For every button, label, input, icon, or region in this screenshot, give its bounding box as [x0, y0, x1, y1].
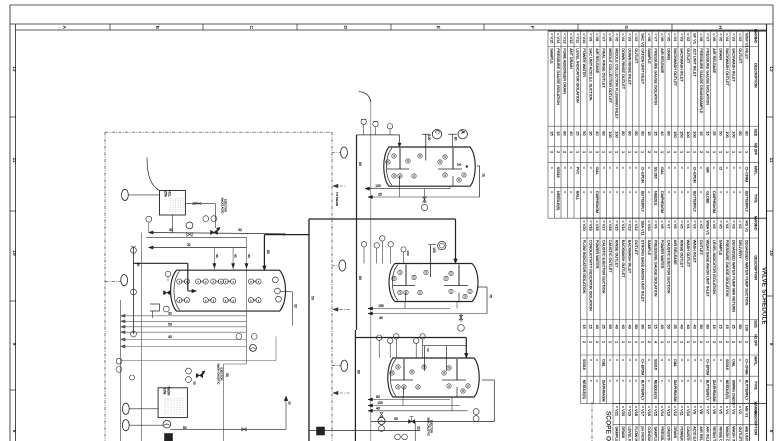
tank T1 inlet bend curve [359, 92, 371, 102]
svg-text:C: C [434, 130, 440, 134]
svg-text:25: 25 [575, 131, 580, 135]
scope boundary dash-dot top [105, 131, 332, 133]
svg-text:=: = [614, 359, 618, 361]
svg-text:OUTLET: OUTLET [634, 240, 638, 256]
svg-text:=: = [601, 191, 605, 193]
svg-text:=: = [699, 167, 703, 169]
svg-text:=: = [686, 380, 690, 382]
svg-text:CI&L: CI&L [673, 359, 677, 367]
svg-text:1: 1 [673, 341, 678, 343]
svg-text:8: 8 [769, 430, 774, 433]
svg-text:= V19: = V19 [627, 406, 632, 416]
acid tank outlet stub [172, 215, 174, 233]
waste sump filled square [317, 427, 325, 435]
tank T3 internals [403, 359, 405, 380]
caustic day tank 10% NaOH [158, 388, 187, 418]
svg-text:MIDDLE COLLECTOR FLUSHING INLE: MIDDLE COLLECTOR FLUSHING INLET [614, 48, 618, 119]
svg-text:2: 2 [738, 341, 743, 343]
tank T2 top valves [363, 247, 365, 264]
svg-text:SCOPE OF: SCOPE OF [605, 411, 612, 441]
svg-text:DEGASSED WATER PUMP SUCTION: DEGASSED WATER PUMP SUCTION [744, 240, 748, 306]
svg-text:=: = [686, 167, 690, 169]
svg-text:15: 15 [647, 131, 652, 135]
svg-text:150: 150 [378, 304, 384, 308]
dash-dot link to WBA tag [332, 265, 339, 267]
svg-text:= V2: = V2 [634, 33, 639, 41]
svg-text:MS V1: MS V1 [744, 220, 749, 232]
svg-text:100: 100 [608, 131, 613, 138]
svg-text:40: 40 [379, 316, 383, 320]
grid ticks right band [767, 116, 774, 118]
svg-text:= V16: = V16 [647, 406, 652, 416]
svg-text:32: 32 [294, 304, 298, 308]
svg-text:=: = [614, 380, 618, 382]
svg-text:25: 25 [712, 131, 717, 135]
svg-text:=: = [666, 191, 670, 193]
svg-text:CI&L: CI&L [731, 359, 735, 367]
svg-text:SAMPLE: SAMPLE [647, 48, 651, 64]
svg-text:CAUSTIC EJECTOR SUCTION: CAUSTIC EJECTOR SUCTION [666, 240, 670, 294]
svg-text:1: 1 [712, 151, 717, 153]
svg-text:1: 1 [673, 151, 678, 153]
tag oval WSF unit [341, 147, 348, 158]
caustic tank hatch [164, 398, 166, 416]
svg-text:NO OFF: NO OFF [754, 334, 758, 346]
line to sample station [121, 360, 276, 362]
svg-text:= V3: = V3 [731, 406, 736, 414]
svg-text:11: 11 [12, 158, 17, 163]
svg-text:25: 25 [601, 325, 606, 329]
bottom pipe y430 [309, 430, 420, 432]
power water elbow thick [264, 234, 308, 236]
tank T4 lower valve row [177, 298, 182, 303]
tank T2 right outlet loop [477, 286, 487, 288]
svg-text:= V4: = V4 [686, 220, 691, 229]
svg-text:1: 1 [608, 151, 613, 153]
svg-text:100: 100 [692, 131, 697, 138]
svg-text:25: 25 [193, 381, 197, 385]
svg-text:MIDDLE COLLECTOR OUTLET: MIDDLE COLLECTOR OUTLET [608, 48, 612, 103]
svg-text:SS316: SS316 [725, 359, 729, 370]
svg-text:BUTTERFLY: BUTTERFLY [640, 380, 644, 401]
svg-text:AIR INLET: AIR INLET [705, 426, 709, 441]
svg-text:15: 15 [725, 325, 730, 329]
svg-text:BUTTERFLY: BUTTERFLY [744, 380, 748, 401]
svg-text:15: 15 [705, 131, 710, 135]
svg-text:1: 1 [614, 151, 619, 153]
svg-text:= V2: = V2 [699, 220, 704, 228]
svg-text:1: 1 [692, 341, 697, 343]
svg-text:CONDUCTIVITY INDICATOR ISOLATI: CONDUCTIVITY INDICATOR ISOLATION [647, 426, 651, 441]
svg-text:SAC UNIT ACID EJ. SUCTION: SAC UNIT ACID EJ. SUCTION [588, 48, 592, 101]
svg-text:25: 25 [378, 193, 382, 197]
acid tank hatch [170, 198, 172, 214]
svg-text:100: 100 [432, 247, 436, 253]
svg-text:15: 15 [549, 131, 554, 135]
svg-text:BACKWASH OUTLET: BACKWASH OUTLET [621, 240, 625, 278]
svg-text:80: 80 [215, 254, 219, 258]
svg-text:1: 1 [588, 341, 593, 343]
svg-text:=: = [647, 167, 651, 169]
tank T3 right outlet valves [473, 409, 479, 415]
svg-text:2: 2 [556, 151, 561, 153]
svg-text:CI&L: CI&L [595, 167, 599, 175]
svg-text:= V18: = V18 [634, 406, 639, 416]
svg-text:= V3: = V3 [731, 33, 736, 41]
tank T1 bottom collector pipe 25 [368, 196, 480, 198]
svg-text:OUTLET: OUTLET [738, 426, 742, 441]
svg-text:FUME ABSORBER DRAIN: FUME ABSORBER DRAIN [562, 48, 566, 94]
svg-text:=: = [738, 359, 742, 361]
scope boundary arrow 2 [333, 392, 350, 394]
svg-text:LEVEL INDICATOR ISOLATION: LEVEL INDICATOR ISOLATION [575, 48, 579, 103]
scope boundary dash-dot left [104, 132, 106, 441]
svg-text:25: 25 [673, 325, 678, 329]
svg-text:RINSE OUTLET: RINSE OUTLET [614, 240, 618, 268]
svg-text:PRESSURE GAUGE ISOLATION: PRESSURE GAUGE ISOLATION [556, 48, 560, 105]
svg-text:= V16: = V16 [608, 220, 613, 230]
svg-text:BACKWASH OUTLET: BACKWASH OUTLET [725, 48, 729, 86]
svg-text:2: 2 [647, 341, 652, 343]
table group 1 row lines [749, 31, 751, 218]
caustic riser to ejector [285, 396, 287, 429]
svg-text:HCL: HCL [168, 190, 172, 197]
svg-text:1: 1 [634, 341, 639, 343]
left pipe x141.5 [141, 233, 143, 441]
svg-text:2: 2 [718, 341, 723, 343]
svg-text:BF V1: BF V1 [692, 33, 697, 44]
svg-text:OUTLET: OUTLET [699, 240, 703, 256]
svg-text:80: 80 [454, 137, 458, 141]
svg-text:=: = [601, 167, 605, 169]
svg-text:FLOW INDICATOR ISOLATION: FLOW INDICATOR ISOLATION [582, 240, 586, 294]
border frame outer right line [772, 5, 774, 441]
svg-text:BACKWASH INLET: BACKWASH INLET [731, 48, 735, 82]
svg-text:= V7: = V7 [705, 33, 710, 41]
tag oval TT [122, 403, 129, 414]
svg-text:FINAL RINSE OUTLET: FINAL RINSE OUTLET [601, 48, 605, 88]
bottom sample valves [395, 434, 401, 440]
svg-text:NO OFF: NO OFF [754, 143, 758, 155]
svg-text:= V13: = V13 [666, 406, 671, 416]
svg-text:=: = [660, 380, 664, 382]
svg-text:50: 50 [225, 373, 229, 377]
svg-text:=: = [582, 167, 586, 169]
svg-text:NO: NO [754, 38, 758, 44]
svg-text:=: = [666, 380, 670, 382]
tag oval acid tank [122, 189, 129, 200]
sample station valves [236, 334, 242, 340]
svg-text:= V2: = V2 [738, 33, 743, 41]
svg-text:CI&L: CI&L [660, 167, 664, 175]
main pipe x309 [308, 219, 310, 441]
svg-text:15: 15 [647, 325, 652, 329]
svg-text:=: = [718, 380, 722, 382]
svg-text:=: = [679, 380, 683, 382]
svg-text:2: 2 [653, 151, 658, 153]
svg-text:100: 100 [375, 184, 381, 188]
svg-text:=: = [731, 167, 735, 169]
svg-text:= V6: = V6 [712, 33, 717, 41]
svg-text:=: = [718, 359, 722, 361]
tank T2 bottom collector pipe 40 [368, 313, 487, 315]
tank T1 drain valve bubble [421, 204, 427, 210]
line down from rinse line [414, 422, 416, 441]
svg-text:MB UNIT INLET: MB UNIT INLET [744, 426, 748, 441]
svg-text:= V5: = V5 [718, 220, 723, 228]
svg-text:1: 1 [601, 341, 606, 343]
svg-text:12: 12 [769, 66, 774, 72]
svg-text:= V12: = V12 [634, 220, 639, 230]
svg-text:= V8: = V8 [699, 33, 704, 41]
acid dosing valve [187, 232, 192, 236]
svg-text:= V8: = V8 [699, 406, 704, 414]
svg-text:11: 11 [769, 158, 774, 163]
svg-text:= V8: = V8 [660, 220, 665, 228]
dash-dot stub to left tag [105, 281, 121, 283]
svg-text:POWER WATER: POWER WATER [679, 426, 683, 441]
svg-text:= V7: = V7 [705, 406, 710, 414]
svg-text:80: 80 [357, 370, 361, 374]
tank T2 main vertical [356, 231, 358, 330]
svg-text:= V2: = V2 [738, 220, 743, 228]
svg-text:2: 2 [731, 341, 736, 343]
dash-dot link to SBA tag [332, 365, 341, 367]
svg-text:B: B [155, 26, 160, 29]
svg-text:= V3: = V3 [692, 220, 697, 228]
svg-text:SBA V11: SBA V11 [640, 220, 645, 235]
svg-text:32: 32 [187, 243, 191, 247]
svg-text:=: = [738, 380, 742, 382]
svg-text:=: = [608, 359, 612, 361]
svg-text:ANT DRAIN: ANT DRAIN [569, 48, 573, 69]
svg-text:SS 316: SS 316 [653, 167, 657, 179]
tank T1 right outlet loop [477, 166, 480, 197]
svg-text:AIR RELEASE: AIR RELEASE [660, 48, 664, 73]
tank T1 riser vertical [370, 102, 372, 441]
rinse pump line [371, 421, 494, 423]
actuated valve on rinse line [409, 420, 415, 424]
svg-text:BUTTERFLY: BUTTERFLY [692, 191, 696, 212]
svg-text:80: 80 [136, 263, 140, 267]
svg-text:PRESSURE GAUGE ISOLATION: PRESSURE GAUGE ISOLATION [705, 48, 709, 105]
svg-text:1: 1 [627, 341, 632, 343]
svg-text:CAUSTIC OUTLET: CAUSTIC OUTLET [666, 426, 670, 441]
svg-text:PRESSURE GAUGE ISOLATION: PRESSURE GAUGE ISOLATION [725, 240, 729, 297]
svg-text:15%: 15% [164, 190, 168, 197]
svg-text:AIR RELEASE: AIR RELEASE [595, 48, 599, 73]
svg-text:JET UNIT INLET: JET UNIT INLET [692, 48, 696, 77]
svg-text:=: = [692, 380, 696, 382]
svg-text:= V11: = V11 [575, 33, 580, 43]
svg-text:=: = [686, 191, 690, 193]
svg-text:100: 100 [427, 135, 431, 141]
svg-text:= V13: = V13 [627, 220, 632, 230]
svg-text:CAUSTIC EJECTOR SUCTION: CAUSTIC EJECTOR SUCTION [686, 426, 690, 441]
svg-text:MATL.: MATL. [754, 356, 758, 366]
svg-text:32: 32 [417, 426, 421, 430]
svg-text:BUTTERFLY: BUTTERFLY [705, 380, 709, 401]
svg-text:CI&L: CI&L [601, 359, 605, 367]
svg-text:9: 9 [12, 343, 17, 346]
svg-text:=: = [562, 167, 566, 169]
svg-text:2: 2 [549, 151, 554, 153]
svg-text:1: 1 [601, 151, 606, 153]
svg-text:WEAK BASE ANION UNIT INLET: WEAK BASE ANION UNIT INLET [705, 240, 709, 298]
tank T1 top header pipe [357, 134, 400, 136]
svg-text:= V13: = V13 [562, 33, 567, 43]
svg-text:SIZE: SIZE [754, 129, 758, 137]
svg-text:SAMPLE: SAMPLE [614, 426, 618, 441]
svg-text:=: = [627, 167, 631, 169]
svg-text:CI~EPDM: CI~EPDM [640, 167, 644, 183]
svg-text:PRESSURE GAUGE ISOLATION: PRESSURE GAUGE ISOLATION [660, 426, 664, 441]
tag oval B2 [122, 420, 129, 431]
svg-text:=: = [647, 380, 651, 382]
tank T1 internals [399, 148, 401, 169]
svg-text:1: 1 [640, 341, 645, 343]
svg-text:OUTLET: OUTLET [738, 48, 742, 64]
svg-text:E: E [436, 26, 441, 29]
svg-text:1: 1 [595, 341, 600, 343]
svg-text:1: 1 [731, 151, 736, 153]
svg-text:AIR RELEASE: AIR RELEASE [699, 426, 703, 441]
svg-text:=: = [634, 191, 638, 193]
svg-text:80: 80 [376, 395, 380, 399]
svg-text:50: 50 [394, 417, 398, 421]
svg-text:DRAIN: DRAIN [666, 48, 670, 60]
svg-text:=: = [562, 191, 566, 193]
svg-text:15: 15 [718, 325, 723, 329]
svg-text:1: 1 [666, 341, 671, 343]
svg-text:= V9: = V9 [692, 406, 697, 414]
svg-text:NO: NO [754, 225, 758, 231]
svg-text:2: 2 [712, 341, 717, 343]
table group 2 band lines [581, 237, 759, 239]
svg-text:1: 1 [627, 151, 632, 153]
svg-text:DESCRIPTION: DESCRIPTION [754, 411, 758, 436]
svg-text:=: = [608, 380, 612, 382]
svg-text:FLOW INDICATOR ISOLATION: FLOW INDICATOR ISOLATION [634, 426, 638, 441]
svg-text:= V7: = V7 [653, 33, 658, 41]
acid day tank 15% HCL [160, 191, 186, 216]
svg-text:=: = [588, 359, 592, 361]
svg-text:BACKWASH INLET: BACKWASH INLET [627, 240, 631, 274]
svg-text:=: = [621, 359, 625, 361]
svg-text:H: H [718, 26, 723, 29]
svg-text:SAMPLE: SAMPLE [718, 240, 722, 256]
svg-text:PRESSURE GAUGE DRAIN/SAMPLE: PRESSURE GAUGE DRAIN/SAMPLE [699, 48, 703, 113]
svg-text:= V12: = V12 [673, 406, 678, 416]
tank T4 feed pipe thick [134, 262, 188, 264]
svg-text:CI~CF8M: CI~CF8M [744, 167, 748, 182]
svg-text:1: 1 [699, 341, 704, 343]
svg-text:DOWN RINSE OUTLET: DOWN RINSE OUTLET [621, 48, 625, 89]
svg-text:TYPE: TYPE [754, 194, 758, 204]
svg-text:CI~EPDM: CI~EPDM [692, 167, 696, 183]
svg-text:DIAPHRAGM: DIAPHRAGM [601, 380, 605, 402]
power water line to caustic ejector [223, 364, 225, 441]
svg-text:1: 1 [640, 151, 645, 153]
svg-text:15: 15 [556, 131, 561, 135]
svg-text:NEEDLE(S): NEEDLE(S) [582, 380, 586, 399]
svg-text:RINSE OUTLET: RINSE OUTLET [718, 426, 722, 441]
svg-text:CI~EPDM: CI~EPDM [640, 359, 644, 375]
svg-text:100: 100 [686, 131, 691, 138]
svg-text:1: 1 [686, 151, 691, 153]
svg-text:= V5: = V5 [614, 33, 619, 41]
svg-text:=: = [627, 191, 631, 193]
svg-text:CAUSTIC OUTLET: CAUSTIC OUTLET [608, 240, 612, 273]
tag oval SBA unit [341, 360, 348, 371]
svg-text:=: = [627, 380, 631, 382]
svg-text:DRAIN: DRAIN [621, 426, 625, 438]
svg-text:100: 100 [377, 401, 383, 405]
svg-text:DRAIN: DRAIN [673, 426, 677, 438]
svg-text:= V7: = V7 [601, 33, 606, 41]
svg-text:100: 100 [731, 131, 736, 138]
left gray main vertical [120, 300, 122, 441]
svg-text:=: = [588, 167, 592, 169]
svg-text:CAUSTIC EJECTOR SUCTION: CAUSTIC EJECTOR SUCTION [601, 240, 605, 294]
svg-text:1: 1 [588, 151, 593, 153]
svg-text:SS316: SS316 [582, 359, 586, 370]
svg-text:1: 1 [686, 341, 691, 343]
svg-text:1: 1 [660, 151, 665, 153]
svg-text:LEVEL INDICATOR ISOLATION: LEVEL INDICATOR ISOLATION [627, 426, 631, 441]
svg-text:DIAPHRAGM: DIAPHRAGM [660, 191, 664, 213]
svg-text:75: 75 [489, 294, 493, 298]
svg-text:=: = [699, 191, 703, 193]
caustic pump discharge [171, 428, 287, 430]
instrument bubble A [452, 134, 454, 147]
svg-text:DELIVERY: DELIVERY [738, 240, 742, 259]
tank T2 bottom stubs [404, 302, 406, 309]
tank T1 bottom stubs [399, 186, 401, 197]
scope boundary dash-dot mid vertical [331, 132, 333, 441]
svg-text:75: 75 [481, 173, 485, 177]
svg-text:=: = [738, 167, 742, 169]
svg-text:NaOH: NaOH [167, 387, 171, 397]
svg-text:F: F [530, 26, 535, 29]
svg-text:50: 50 [168, 323, 172, 327]
grid ticks left band [10, 116, 16, 118]
svg-text:= V10: = V10 [647, 220, 652, 231]
tank T3 top valves [378, 340, 380, 358]
svg-text:1: 1 [679, 151, 684, 153]
svg-text:= V6: = V6 [608, 33, 613, 41]
scope boundary arrow 0 [333, 185, 346, 187]
svg-text:100: 100 [457, 163, 462, 167]
svg-text:=: = [634, 167, 638, 169]
border grid band top line [10, 23, 773, 25]
svg-text:150: 150 [673, 131, 678, 138]
svg-text:LEVEL INDICATOR ISOLATION: LEVEL INDICATOR ISOLATION [712, 240, 716, 295]
svg-text:= V17: = V17 [640, 406, 645, 416]
svg-text:NEEDLE(S): NEEDLE(S) [556, 191, 560, 210]
main header pipe y219 [309, 218, 456, 220]
svg-text:=: = [614, 191, 618, 193]
svg-text:=: = [549, 167, 553, 169]
svg-text:AIR RELEASE: AIR RELEASE [712, 48, 716, 73]
svg-text:15: 15 [582, 325, 587, 329]
tag oval left B [121, 275, 128, 286]
svg-text:=: = [588, 380, 592, 382]
svg-text:10: 10 [769, 250, 774, 256]
svg-text:SAMPLE: SAMPLE [647, 240, 651, 256]
svg-text:2: 2 [562, 151, 567, 153]
T3 feed header thick [355, 337, 466, 339]
